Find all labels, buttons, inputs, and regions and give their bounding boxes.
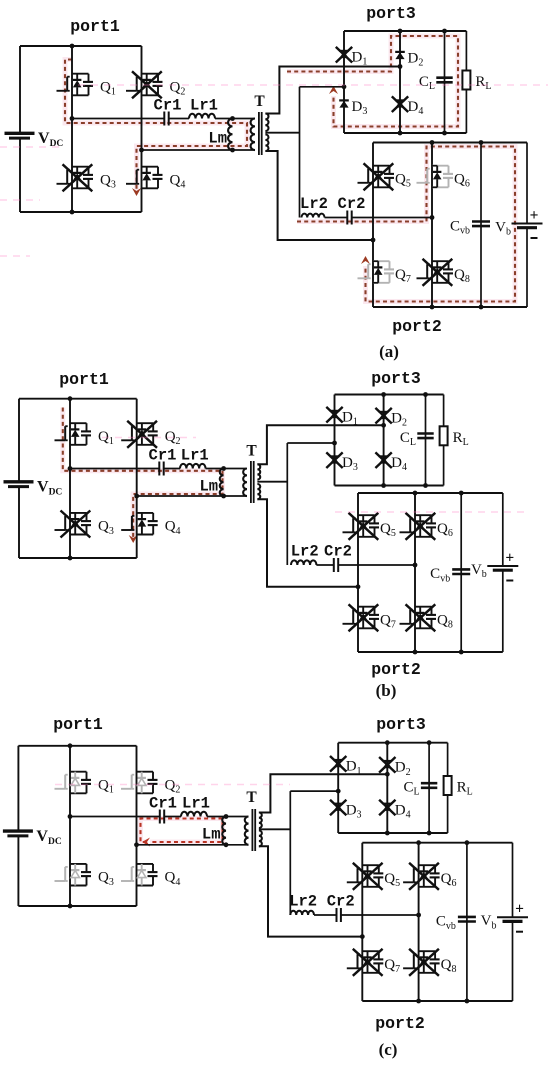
transistor Q1 (c) (70, 771, 87, 773)
node: Q6 top (c) (416, 840, 421, 845)
node: Q6 top (b) (413, 491, 418, 496)
wire: port2 bottom rail (a) (373, 306, 527, 308)
transistor Q7 (a) (373, 260, 390, 262)
svg-text:Lr1: Lr1 (181, 447, 209, 465)
wire: port3 bottom rail (c) (338, 832, 447, 834)
svg-text:port1: port1 (70, 17, 120, 36)
wire: Lr2 to Cr2 (c) (314, 914, 337, 916)
diode D2 (c) (383, 760, 393, 762)
wire: mid-tap vertical riser (c) (289, 791, 291, 915)
wire: bridge leg Q5/Q7 (b) (357, 493, 359, 652)
transistor Q6 (c) (419, 864, 436, 866)
node: input2 junction (a) (342, 84, 347, 89)
transistor Q2 (b) (137, 422, 154, 424)
wire: Lr1 to transformer (b) (206, 468, 247, 470)
transistor Q3 (b) (70, 512, 87, 514)
transformer T secondary bottom winding (259, 831, 262, 847)
transformer T primary winding (243, 469, 247, 497)
battery Vb (a) (526, 143, 528, 224)
wire: Lr1 to transformer (c) (207, 816, 249, 818)
node: Cvb top (b) (459, 491, 464, 496)
capacitor Cr1 (a) (163, 112, 165, 126)
transistor Q4 (a) (142, 166, 159, 168)
wire: diode leg D2/D4 (b) (383, 395, 385, 486)
wire: secondary mid tap (a) (265, 132, 299, 134)
transistor Q7 (b) (358, 606, 375, 608)
node: CL top (a) (442, 29, 447, 34)
node: D2 bottom (a) (398, 131, 403, 136)
wire: bridge leg Q2/Q4 (b) (136, 399, 138, 558)
node: CL top (c) (427, 740, 432, 745)
node: input1 junction (c) (385, 772, 390, 777)
node: D2 bottom (b) (381, 483, 386, 488)
svg-text:port1: port1 (53, 715, 103, 734)
wire: port3 top rail (a) (344, 30, 466, 32)
wire: leg2 mid to transformer bottom (c) (137, 844, 249, 846)
svg-text:port3: port3 (376, 715, 426, 734)
transformer T core (250, 461, 252, 503)
node: Cr2 output junction (b) (413, 563, 418, 568)
battery Vb (b) (502, 493, 504, 566)
node: Lm bottom (b) (221, 494, 226, 499)
svg-text:Lr1: Lr1 (182, 795, 210, 813)
inductor Lr1 (c) (181, 812, 207, 817)
node: port1 bottom junction (a) (70, 210, 75, 215)
node: Lm top (a) (230, 116, 235, 121)
wire: Cr1 to Lr1 (c) (164, 816, 181, 818)
wire: port2 bottom rail (b) (358, 651, 503, 653)
transistor Q4 (b) (137, 512, 154, 514)
node: CL bottom (b) (423, 483, 428, 488)
svg-text:Cr1: Cr1 (149, 447, 177, 465)
wire: Cr2 to bridge (c) (341, 914, 419, 916)
capacitor Cr2 (a) (346, 211, 348, 225)
transistor Q8 (c) (419, 950, 436, 952)
node: port1 bottom junction (c) (68, 904, 73, 909)
transformer T secondary top winding (259, 813, 262, 829)
wire: bridge leg Q1/Q3 (a) (71, 46, 73, 212)
diode D4 (a) (395, 99, 405, 101)
transformer T secondary top winding (265, 114, 268, 131)
capacitor CL (c) (421, 782, 437, 785)
label battery minus (c) (516, 931, 523, 933)
svg-text:T: T (254, 93, 265, 110)
wire: Cr1 to Lr1 (b) (164, 468, 180, 470)
wire: diode leg D1/D3 (b) (334, 395, 336, 486)
svg-text:Lr1: Lr1 (190, 97, 218, 115)
resistor RL (a) (462, 71, 470, 90)
diode D4 (b) (379, 455, 389, 457)
wire: port2 top rail (c) (362, 842, 512, 844)
transistor Q1 (b) (70, 422, 87, 424)
svg-text:+: + (530, 207, 539, 224)
node: leg1 midpoint junction (a) (70, 116, 75, 121)
wire: Cr2 to bridge (a) (352, 217, 432, 219)
transistor Q2 (a) (142, 73, 159, 75)
wire: leg1 mid to Cr1 (c) (70, 816, 160, 818)
capacitor Cr1 (c) (159, 810, 161, 824)
diode D2 (b) (379, 411, 389, 413)
svg-text:Cr2: Cr2 (327, 893, 355, 911)
diode D1 (a) (339, 50, 349, 52)
transformer T secondary bottom winding (257, 484, 260, 499)
transistor Q6 (b) (415, 514, 432, 516)
wire: diode leg D2/D4 (c) (386, 743, 388, 833)
inductor Lr1 (b) (180, 464, 206, 469)
wire: bridge leg Q2/Q4 (a) (141, 46, 143, 212)
wire: diode leg D1/D3 (c) (337, 743, 339, 833)
wire: mid-tap vertical riser (a) (299, 87, 301, 218)
node: Q6 bottom (b) (413, 650, 418, 655)
node: D2 top (a) (398, 29, 403, 34)
wire: port1 left branch lower (a) (19, 138, 21, 212)
wire: port1 top rail (c) (18, 745, 136, 747)
transistor Q3 (c) (70, 863, 87, 865)
wire: secondary mid tap (c) (259, 828, 290, 830)
node: Cvb bottom (c) (465, 999, 470, 1004)
wire: secondary top lead A (b) (257, 425, 383, 464)
wire: CL leg (b) (425, 395, 427, 486)
inductor Lm (a) (228, 119, 232, 151)
wire: leg2 mid to transformer bottom (b) (137, 495, 246, 497)
wire: port1 left branch lower (c) (17, 836, 19, 906)
node: D2 top (b) (381, 392, 386, 397)
node: CL bottom (c) (427, 831, 432, 836)
capacitor Cvb (c) (458, 916, 476, 919)
capacitor CL (a) (436, 76, 452, 79)
svg-text:T: T (246, 789, 257, 806)
wire: port1 bottom rail (a) (20, 211, 142, 213)
battery Vb (c) (512, 843, 514, 918)
capacitor Cr1 (b) (158, 462, 160, 476)
node: Cvb top (a) (479, 140, 484, 145)
transformer T secondary top winding (257, 464, 260, 479)
svg-text:T: T (246, 443, 257, 460)
node: port1 top junction (b) (68, 396, 73, 401)
svg-text:+: + (505, 550, 514, 567)
wire: Lr2 to Cr2 (b) (316, 564, 333, 566)
wire: secondary bottom lead C (c) (259, 846, 362, 936)
wire: Lr1 to transformer (a) (215, 118, 255, 120)
node: return junction (c) (360, 934, 365, 939)
node: return junction (a) (371, 238, 376, 243)
transistor Q8 (a) (432, 260, 449, 262)
svg-text:Lm: Lm (202, 826, 221, 844)
transformer T primary winding (245, 817, 249, 845)
wire: Cr1 to Lr1 (a) (169, 118, 189, 120)
wire: port3 bottom rail (b) (335, 485, 444, 487)
diode D1 (b) (330, 410, 340, 412)
svg-text:(b): (b) (376, 681, 397, 700)
node: Cvb bottom (a) (479, 305, 484, 310)
wire: port3 top rail (b) (335, 394, 444, 396)
wire: mid tap to D1/D3 midpoint (c) (290, 790, 338, 792)
transistor Q5 (a) (373, 165, 390, 167)
wire: port1 top rail (a) (20, 45, 142, 47)
wire: mid-tap vertical riser (b) (286, 443, 288, 565)
svg-text:port2: port2 (371, 660, 421, 679)
wire: port3 top rail (c) (338, 742, 447, 744)
node: Lm top (b) (221, 466, 226, 471)
transistor Q7 (c) (362, 950, 379, 952)
svg-text:(c): (c) (379, 1040, 398, 1059)
node: Lm bottom (a) (230, 148, 235, 153)
wire: Cvb leg (b) (460, 493, 462, 652)
transformer T primary winding (251, 119, 255, 151)
wire: RL leg (b) (443, 395, 445, 486)
svg-text:Cr2: Cr2 (338, 195, 366, 213)
diode D4 (c) (383, 803, 393, 805)
svg-text:Cr1: Cr1 (149, 795, 177, 813)
transistor Q8 (b) (415, 606, 432, 608)
label battery minus (b) (506, 580, 513, 582)
wire: secondary mid tap (b) (257, 481, 287, 483)
wire: bridge leg Q6/Q8 (c) (418, 843, 420, 1001)
capacitor CL (b) (417, 432, 433, 435)
transistor Q1 (a) (72, 73, 89, 75)
wire: port1 bottom rail (c) (18, 905, 136, 907)
node: Cvb top (c) (465, 840, 470, 845)
node: CL top (b) (423, 392, 428, 397)
svg-text:Cr1: Cr1 (154, 97, 182, 115)
svg-text:Lr2: Lr2 (291, 543, 319, 561)
artifact pink dashes (78, 84, 548, 86)
node: Q6 top (a) (430, 140, 435, 145)
battery VDC (a) (5, 132, 35, 135)
node: Q6 bottom (c) (416, 999, 421, 1004)
inductor Lm (b) (220, 469, 224, 497)
wire: port1 left branch upper (b) (18, 399, 20, 482)
wire: bridge leg Q5/Q7 (a) (372, 143, 374, 308)
node: D2 top (c) (385, 740, 390, 745)
svg-text:Lm: Lm (199, 477, 218, 495)
node: leg2 midpoint junction (c) (134, 842, 139, 847)
svg-text:port2: port2 (392, 317, 442, 336)
wire: Cr2 to bridge (b) (338, 564, 415, 566)
resistor RL (c) (444, 776, 452, 795)
wire: port1 left branch lower (b) (18, 487, 20, 558)
wire: secondary top lead A (c) (259, 774, 387, 812)
node: leg1 midpoint junction (c) (68, 814, 73, 819)
node: return junction (b) (356, 584, 361, 589)
wire: secondary top lead A (a) (265, 67, 400, 114)
battery VDC (b) (4, 480, 34, 483)
node: CL bottom (a) (442, 131, 447, 136)
node: port1 top junction (c) (68, 743, 73, 748)
node: Q6 bottom (a) (430, 305, 435, 310)
svg-text:(a): (a) (379, 342, 399, 361)
wire: leg1 mid to Cr1 (b) (70, 468, 159, 470)
node: port1 top junction (a) (70, 44, 75, 49)
wire: Lr2 to Cr2 (a) (325, 217, 348, 219)
wire: diode leg D2/D4 (a) (399, 31, 401, 133)
transistor Q5 (b) (358, 514, 375, 516)
wire: CL leg (c) (428, 743, 430, 833)
svg-text:+: + (515, 901, 524, 918)
label battery minus (a) (531, 237, 538, 239)
transformer T core (251, 809, 253, 851)
node: D2 bottom (c) (385, 831, 390, 836)
inductor Lr2 (a) (302, 214, 325, 218)
transistor Q6 (a) (432, 165, 449, 167)
wire: port1 left branch upper (c) (17, 746, 19, 831)
transistor Q4 (c) (137, 863, 154, 865)
node: leg2 midpoint junction (b) (134, 494, 139, 499)
node: Cr2 output junction (c) (416, 913, 421, 918)
wire: port1 top rail (b) (19, 398, 137, 400)
wire: mid tap to D1/D3 midpoint (b) (287, 442, 334, 444)
diode D2 (a) (395, 51, 405, 53)
transformer T core (258, 112, 260, 155)
node: Lm bottom (c) (224, 842, 229, 847)
wire: port1 bottom rail (b) (19, 557, 137, 559)
wire: mid tap to D1/D3 midpoint (a) (300, 86, 345, 88)
wire: port2 bottom rail (c) (362, 1000, 512, 1002)
node: Cvb bottom (b) (459, 650, 464, 655)
wire: bridge leg Q1/Q3 (b) (69, 399, 71, 558)
transistor Q5 (c) (362, 864, 379, 866)
transistor Q2 (c) (137, 771, 154, 773)
wire: bridge leg Q6/Q8 (b) (414, 493, 416, 652)
svg-text:port3: port3 (371, 369, 421, 388)
capacitor Cr2 (c) (336, 908, 338, 922)
wire: RL leg (c) (447, 743, 449, 833)
battery VDC (c) (3, 829, 33, 832)
svg-text:port3: port3 (366, 4, 416, 23)
diode D3 (c) (333, 803, 343, 805)
wire: port2 top rail (b) (358, 492, 503, 494)
capacitor Cvb (a) (472, 220, 490, 223)
wire: RL leg (a) (465, 31, 467, 133)
wire: leg2 mid to transformer bottom (a) (142, 149, 256, 151)
node: input2 junction (c) (336, 789, 341, 794)
wire: bridge leg Q1/Q3 (c) (69, 746, 71, 906)
svg-text:Cr2: Cr2 (324, 543, 352, 561)
svg-text:Lr2: Lr2 (289, 893, 317, 911)
inductor Lr1 (a) (189, 114, 215, 119)
wire: port1 left branch upper (a) (19, 46, 21, 133)
wire: bridge leg Q6/Q8 (a) (431, 143, 433, 308)
node: Cr2 output junction (a) (430, 215, 435, 220)
inductor Lr2 (c) (290, 911, 314, 915)
capacitor Cr2 (b) (333, 558, 335, 572)
svg-text:port2: port2 (375, 1014, 425, 1033)
wire: CL leg (a) (444, 31, 446, 133)
diode D3 (a) (339, 99, 349, 101)
inductor Lr2 (b) (291, 560, 316, 565)
wire: Cvb leg (a) (480, 143, 482, 308)
node: input1 junction (b) (381, 423, 386, 428)
capacitor Cvb (b) (452, 568, 470, 571)
wire: bridge leg Q2/Q4 (c) (136, 746, 138, 906)
wire: port3 bottom rail (a) (344, 132, 466, 134)
svg-text:port1: port1 (59, 370, 109, 389)
diode D1 (c) (333, 759, 343, 761)
transformer T secondary bottom winding (265, 135, 268, 152)
resistor RL (b) (440, 426, 448, 445)
svg-text:Lm: Lm (208, 129, 227, 147)
diode D3 (b) (330, 455, 340, 457)
inductor Lm (c) (222, 817, 226, 845)
node: input1 junction (a) (398, 64, 403, 69)
node: leg1 midpoint junction (b) (68, 466, 73, 471)
wire: Cvb leg (c) (466, 843, 468, 1001)
wire: secondary bottom lead C (a) (265, 151, 373, 240)
transistor Q3 (a) (72, 166, 89, 168)
node: leg2 midpoint junction (a) (139, 148, 144, 153)
wire: bridge leg Q5/Q7 (c) (361, 843, 363, 1001)
wire: diode leg D1/D3 (a) (343, 31, 345, 133)
svg-text:Lr2: Lr2 (300, 195, 328, 213)
wire: port2 top rail (a) (373, 142, 527, 144)
node: port1 bottom junction (b) (68, 556, 73, 561)
wire: leg1 mid to Cr1 (a) (72, 118, 164, 120)
node: Lm top (c) (224, 814, 229, 819)
wire: secondary bottom lead C (b) (257, 499, 358, 587)
node: input2 junction (b) (332, 441, 337, 446)
current path underlays (65, 60, 247, 193)
